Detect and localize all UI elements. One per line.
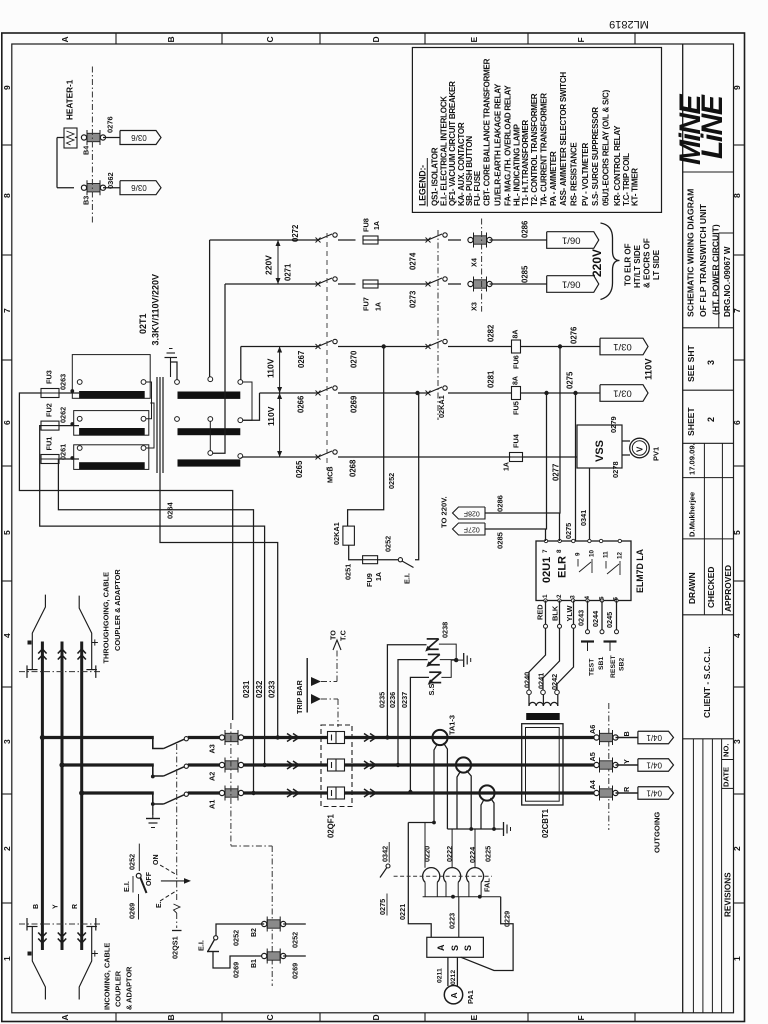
svg-text:1A: 1A bbox=[504, 462, 511, 471]
svg-text:Y: Y bbox=[53, 904, 60, 909]
svg-text:0243: 0243 bbox=[577, 610, 586, 626]
svg-text:FU7: FU7 bbox=[362, 297, 371, 311]
svg-text:02KA1: 02KA1 bbox=[332, 522, 341, 545]
svg-text:0252: 0252 bbox=[128, 854, 137, 870]
svg-text:A2: A2 bbox=[208, 772, 217, 781]
svg-text:0273: 0273 bbox=[409, 290, 418, 308]
svg-text:DRAWN: DRAWN bbox=[687, 572, 697, 604]
svg-text:Y: Y bbox=[622, 759, 631, 764]
svg-text:0277: 0277 bbox=[552, 464, 561, 481]
svg-text:ELM7D LA: ELM7D LA bbox=[635, 548, 645, 593]
svg-text:0252: 0252 bbox=[384, 536, 393, 552]
svg-text:0282: 0282 bbox=[487, 324, 496, 342]
svg-text:0276: 0276 bbox=[106, 116, 115, 133]
svg-text:CBT- CORE BALLANCE TRANSFORMER: CBT- CORE BALLANCE TRANSFORMER bbox=[482, 58, 491, 206]
svg-text:R: R bbox=[72, 904, 79, 909]
svg-text:FU3: FU3 bbox=[45, 370, 54, 384]
svg-text:0245: 0245 bbox=[605, 612, 614, 628]
svg-text:FAL: FAL bbox=[483, 878, 492, 892]
svg-text:5: 5 bbox=[599, 596, 606, 600]
svg-text:0270: 0270 bbox=[350, 350, 359, 368]
svg-text:LT SIDE: LT SIDE bbox=[652, 249, 661, 280]
svg-text:CHECKED: CHECKED bbox=[706, 567, 716, 608]
svg-text:A5: A5 bbox=[588, 752, 597, 761]
svg-text:TA1-3: TA1-3 bbox=[448, 715, 457, 735]
svg-text:S.S.: S.S. bbox=[427, 682, 436, 696]
svg-text:0224: 0224 bbox=[468, 846, 477, 863]
svg-text:02U1: 02U1 bbox=[541, 557, 553, 583]
svg-text:0222: 0222 bbox=[445, 846, 454, 862]
svg-text:0221: 0221 bbox=[398, 904, 407, 920]
svg-text:PV1: PV1 bbox=[652, 447, 661, 461]
svg-text:0264: 0264 bbox=[166, 501, 175, 519]
svg-text:HEATER-1: HEATER-1 bbox=[66, 79, 75, 120]
svg-text:0233: 0233 bbox=[268, 680, 277, 698]
svg-text:110V: 110V bbox=[266, 358, 276, 378]
svg-text:3: 3 bbox=[2, 739, 12, 744]
svg-text:COUPLER: COUPLER bbox=[114, 970, 123, 1007]
svg-text:02CBT1: 02CBT1 bbox=[541, 808, 550, 838]
svg-text:TEST: TEST bbox=[589, 658, 596, 676]
svg-text:0265: 0265 bbox=[295, 460, 304, 478]
svg-text:OF FLP TRANSWITCH UNIT: OF FLP TRANSWITCH UNIT bbox=[698, 203, 708, 317]
svg-text:APPROVED: APPROVED bbox=[723, 565, 733, 612]
svg-text:03/6: 03/6 bbox=[131, 183, 147, 192]
svg-text:0211: 0211 bbox=[437, 968, 444, 983]
svg-text:SHEET: SHEET bbox=[686, 407, 696, 436]
svg-text:2: 2 bbox=[556, 594, 563, 598]
svg-text:FU8: FU8 bbox=[362, 218, 371, 232]
svg-text:LiNE: LiNE bbox=[696, 94, 729, 159]
svg-text:SEE SHT: SEE SHT bbox=[686, 344, 696, 382]
svg-text:RESET: RESET bbox=[610, 654, 617, 678]
svg-text:0274: 0274 bbox=[409, 252, 418, 270]
svg-text:110V: 110V bbox=[644, 358, 655, 380]
svg-text:110V: 110V bbox=[266, 406, 276, 426]
svg-text:U1/ELR-EARTH LEAKAGE RELAY: U1/ELR-EARTH LEAKAGE RELAY bbox=[493, 83, 502, 206]
svg-text:5: 5 bbox=[732, 530, 742, 535]
svg-text:RS- RESISTANCE: RS- RESISTANCE bbox=[569, 142, 578, 206]
svg-text:B: B bbox=[622, 731, 631, 736]
svg-text:0261: 0261 bbox=[59, 444, 68, 460]
svg-text:X3: X3 bbox=[470, 302, 479, 311]
svg-text:QS1- ISOLATOR: QS1- ISOLATOR bbox=[431, 147, 440, 206]
svg-text:D: D bbox=[371, 36, 381, 42]
svg-text:B4: B4 bbox=[82, 146, 91, 155]
svg-text:INCOMING, CABLE: INCOMING, CABLE bbox=[103, 943, 112, 1010]
svg-text:03/1: 03/1 bbox=[613, 341, 632, 352]
svg-text:B: B bbox=[33, 904, 40, 909]
svg-text:FU5: FU5 bbox=[512, 401, 521, 415]
svg-text:T1- H.T.TRANSFORMER: T1- H.T.TRANSFORMER bbox=[521, 120, 530, 206]
svg-text:A6: A6 bbox=[588, 725, 597, 734]
svg-text:1A: 1A bbox=[374, 221, 381, 230]
svg-text:VSS: VSS bbox=[594, 440, 606, 462]
svg-text:E.I.: E.I. bbox=[403, 573, 412, 584]
svg-text:7: 7 bbox=[732, 308, 742, 313]
svg-text:02QF1: 02QF1 bbox=[327, 814, 336, 838]
svg-text:0268: 0268 bbox=[349, 459, 358, 477]
svg-text:3.3KV/110V/220V: 3.3KV/110V/220V bbox=[151, 274, 161, 346]
svg-text:11: 11 bbox=[603, 551, 610, 558]
svg-text:T.C: T.C bbox=[339, 630, 348, 641]
svg-text:PV - VOLTMETER: PV - VOLTMETER bbox=[581, 143, 590, 206]
svg-text:3: 3 bbox=[570, 595, 577, 599]
svg-text:6: 6 bbox=[2, 420, 12, 425]
svg-text:0252: 0252 bbox=[232, 930, 241, 946]
svg-text:8: 8 bbox=[2, 193, 12, 198]
svg-text:ON: ON bbox=[153, 855, 160, 866]
svg-text:10: 10 bbox=[589, 549, 596, 557]
svg-text:A: A bbox=[449, 992, 459, 998]
svg-text:SCHEMATIC WIRING DIAGRAM: SCHEMATIC WIRING DIAGRAM bbox=[686, 189, 696, 317]
svg-text:PA - AMMETER: PA - AMMETER bbox=[549, 151, 558, 206]
svg-text:9: 9 bbox=[2, 85, 12, 90]
svg-text:0267: 0267 bbox=[297, 351, 306, 368]
svg-text:04/1: 04/1 bbox=[646, 733, 662, 742]
svg-text:FU2: FU2 bbox=[45, 403, 54, 417]
svg-text:027F: 027F bbox=[464, 526, 480, 533]
svg-text:0232: 0232 bbox=[255, 680, 264, 698]
svg-text:220V: 220V bbox=[590, 249, 604, 277]
svg-text:B2: B2 bbox=[251, 928, 258, 937]
svg-text:0242: 0242 bbox=[550, 674, 559, 690]
svg-text:NO.: NO. bbox=[721, 743, 730, 757]
svg-text:TO: TO bbox=[329, 630, 338, 640]
svg-text:E.: E. bbox=[156, 901, 163, 908]
svg-text:OFF: OFF bbox=[146, 871, 153, 886]
svg-text:TO 220V.: TO 220V. bbox=[440, 496, 449, 528]
svg-text:6: 6 bbox=[613, 597, 620, 601]
svg-text:0279: 0279 bbox=[609, 416, 618, 433]
svg-text:C: C bbox=[265, 36, 275, 42]
svg-text:LEGEND:-: LEGEND:- bbox=[417, 165, 427, 206]
svg-text:0341: 0341 bbox=[579, 510, 588, 526]
svg-text:2: 2 bbox=[732, 846, 742, 851]
svg-text:03/6: 03/6 bbox=[131, 133, 147, 142]
svg-text:HL- INDICATING LAMP: HL- INDICATING LAMP bbox=[512, 123, 521, 206]
svg-text:& ADAPTOR: & ADAPTOR bbox=[125, 966, 134, 1010]
svg-text:QF1- VACUUM CIRCUIT BREAKER: QF1- VACUUM CIRCUIT BREAKER bbox=[448, 81, 457, 206]
svg-text:RED: RED bbox=[536, 604, 545, 620]
svg-text:FU- FUSE: FU- FUSE bbox=[473, 170, 482, 206]
svg-text:0238: 0238 bbox=[441, 622, 450, 638]
svg-text:0286: 0286 bbox=[521, 220, 530, 238]
svg-text:0275: 0275 bbox=[564, 523, 573, 539]
svg-text:B3: B3 bbox=[82, 196, 91, 205]
svg-text:A1: A1 bbox=[208, 800, 217, 809]
svg-text:0275: 0275 bbox=[566, 371, 575, 389]
svg-text:A: A bbox=[60, 1014, 70, 1020]
svg-text:3: 3 bbox=[706, 360, 716, 365]
svg-text:SB1: SB1 bbox=[598, 657, 605, 670]
svg-text:0220: 0220 bbox=[422, 846, 431, 862]
svg-text:0252: 0252 bbox=[291, 932, 300, 948]
svg-text:8: 8 bbox=[732, 193, 742, 198]
svg-text:0342: 0342 bbox=[381, 846, 390, 862]
svg-text:1A: 1A bbox=[376, 572, 383, 581]
svg-text:E: E bbox=[469, 37, 479, 43]
svg-text:05U1-EOCRS RELAY (O/L & S/C): 05U1-EOCRS RELAY (O/L & S/C) bbox=[602, 89, 611, 206]
svg-text:0235: 0235 bbox=[378, 692, 387, 708]
svg-text:7: 7 bbox=[542, 549, 549, 553]
svg-text:OUTGOING: OUTGOING bbox=[653, 812, 662, 853]
svg-text:0262: 0262 bbox=[59, 407, 68, 423]
svg-text:B1: B1 bbox=[251, 959, 258, 968]
svg-text:220V: 220V bbox=[264, 255, 274, 275]
svg-text:0269: 0269 bbox=[291, 963, 300, 979]
svg-text:E.I.: E.I. bbox=[122, 881, 131, 892]
svg-text:0237: 0237 bbox=[400, 692, 409, 708]
svg-text:02QS1: 02QS1 bbox=[171, 936, 180, 959]
svg-text:E.I.: E.I. bbox=[197, 940, 206, 951]
svg-text:06/1: 06/1 bbox=[562, 279, 581, 290]
svg-text:04/1: 04/1 bbox=[646, 761, 662, 770]
svg-text:ASS- AMMETER SELECTOR SWITCH: ASS- AMMETER SELECTOR SWITCH bbox=[559, 72, 568, 206]
svg-text:FU4: FU4 bbox=[512, 433, 521, 448]
svg-text:COUPLER & ADAPTOR: COUPLER & ADAPTOR bbox=[113, 569, 122, 651]
svg-text:F: F bbox=[576, 37, 586, 42]
svg-text:TRIP BAR: TRIP BAR bbox=[295, 679, 304, 714]
svg-text:0271: 0271 bbox=[284, 263, 293, 281]
svg-text:FU9: FU9 bbox=[365, 573, 374, 587]
svg-text:0269: 0269 bbox=[232, 962, 241, 978]
svg-text:DATE: DATE bbox=[721, 767, 730, 787]
svg-text:0236: 0236 bbox=[388, 692, 397, 708]
svg-text:04/1: 04/1 bbox=[646, 789, 662, 798]
svg-text:A4: A4 bbox=[588, 779, 597, 789]
svg-text:2: 2 bbox=[2, 846, 12, 851]
svg-text:06/1: 06/1 bbox=[562, 235, 581, 246]
svg-text:03/1: 03/1 bbox=[613, 388, 632, 399]
svg-text:TO ELR OF: TO ELR OF bbox=[624, 243, 633, 286]
svg-text:S: S bbox=[463, 945, 473, 951]
svg-text:E: E bbox=[469, 1015, 479, 1021]
svg-text:0231: 0231 bbox=[242, 680, 251, 698]
svg-text:HT/LT SIDE: HT/LT SIDE bbox=[633, 244, 642, 288]
svg-text:0286: 0286 bbox=[496, 495, 505, 512]
svg-text:R: R bbox=[622, 786, 631, 792]
svg-text:FA- MAG./TH. OVERLOAD RELAY: FA- MAG./TH. OVERLOAD RELAY bbox=[504, 85, 513, 206]
svg-text:0251: 0251 bbox=[344, 564, 353, 580]
svg-text:1A: 1A bbox=[376, 302, 383, 311]
svg-text:0285: 0285 bbox=[521, 265, 530, 283]
svg-text:0229: 0229 bbox=[502, 911, 511, 927]
svg-text:E.I.- ELECTRICAL INTERLOCK: E.I.- ELECTRICAL INTERLOCK bbox=[440, 96, 449, 206]
svg-text:B: B bbox=[166, 1014, 176, 1020]
svg-text:4: 4 bbox=[2, 633, 12, 638]
svg-text:A: A bbox=[60, 36, 70, 42]
svg-text:1: 1 bbox=[2, 956, 12, 961]
svg-text:0252: 0252 bbox=[387, 473, 396, 489]
svg-text:0276: 0276 bbox=[570, 326, 579, 344]
svg-text:0212: 0212 bbox=[450, 970, 457, 985]
svg-text:6: 6 bbox=[732, 420, 742, 425]
svg-text:0269: 0269 bbox=[350, 395, 359, 413]
svg-text:4: 4 bbox=[584, 596, 591, 600]
svg-text:T.C- TRIP COIL: T.C- TRIP COIL bbox=[622, 153, 631, 206]
svg-text:FU6: FU6 bbox=[512, 355, 521, 369]
svg-text:0225: 0225 bbox=[484, 846, 493, 862]
svg-text:0263: 0263 bbox=[59, 374, 68, 390]
svg-text:1: 1 bbox=[732, 956, 742, 961]
svg-text:DRG.NO.-09067 W: DRG.NO.-09067 W bbox=[723, 246, 732, 317]
svg-text:0244: 0244 bbox=[591, 610, 600, 627]
svg-text:A3: A3 bbox=[208, 744, 217, 753]
svg-text:ML2819: ML2819 bbox=[609, 18, 649, 30]
svg-text:0266: 0266 bbox=[297, 395, 306, 413]
svg-text:1: 1 bbox=[542, 594, 549, 598]
svg-text:PA1: PA1 bbox=[466, 990, 475, 1004]
svg-text:BLK: BLK bbox=[551, 605, 560, 621]
svg-text:17.09.09.: 17.09.09. bbox=[688, 443, 697, 475]
svg-text:CLIENT - S.C.C.L.: CLIENT - S.C.C.L. bbox=[702, 646, 712, 718]
svg-text:0362: 0362 bbox=[106, 172, 115, 189]
svg-text:9: 9 bbox=[575, 552, 582, 556]
svg-text:02T1: 02T1 bbox=[138, 313, 148, 334]
svg-text:02KA1: 02KA1 bbox=[437, 395, 446, 418]
svg-text:B: B bbox=[166, 36, 176, 42]
svg-text:0223: 0223 bbox=[448, 913, 457, 929]
svg-text:4: 4 bbox=[732, 633, 742, 638]
svg-text:028F: 028F bbox=[464, 510, 480, 517]
svg-text:8A: 8A bbox=[513, 376, 520, 385]
svg-text:YLW: YLW bbox=[565, 605, 574, 621]
svg-text:0281: 0281 bbox=[487, 370, 496, 388]
svg-text:ELR: ELR bbox=[557, 556, 569, 578]
svg-text:D.Mukherjee: D.Mukherjee bbox=[688, 492, 697, 537]
svg-text:C: C bbox=[265, 1014, 275, 1020]
svg-text:FU1: FU1 bbox=[45, 437, 54, 451]
svg-text:T2- CONTROL TRANSFORMER: T2- CONTROL TRANSFORMER bbox=[530, 93, 539, 206]
svg-text:7: 7 bbox=[2, 308, 12, 313]
svg-text:0278: 0278 bbox=[611, 461, 620, 478]
svg-text:S: S bbox=[450, 945, 460, 951]
svg-text:S.S- SURGE SUPPRESSOR: S.S- SURGE SUPPRESSOR bbox=[591, 107, 600, 206]
svg-text:5: 5 bbox=[2, 530, 12, 535]
svg-text:0241: 0241 bbox=[537, 673, 546, 689]
svg-text:V: V bbox=[636, 446, 645, 452]
svg-text:2: 2 bbox=[706, 417, 716, 422]
svg-text:12: 12 bbox=[617, 551, 624, 559]
svg-text:KT- TIMER: KT- TIMER bbox=[631, 168, 640, 206]
svg-text:A: A bbox=[436, 944, 446, 951]
svg-text:SB2: SB2 bbox=[619, 658, 626, 671]
svg-text:0275: 0275 bbox=[378, 899, 387, 915]
svg-text:X4: X4 bbox=[470, 257, 479, 267]
svg-text:& EOCRS OF: & EOCRS OF bbox=[643, 238, 652, 288]
svg-text:8A: 8A bbox=[513, 330, 520, 339]
svg-text:0272: 0272 bbox=[291, 224, 300, 242]
svg-text:TA- CURRENT TRANSFORMER: TA- CURRENT TRANSFORMER bbox=[539, 93, 548, 206]
svg-text:0269: 0269 bbox=[128, 903, 137, 919]
svg-text:0240: 0240 bbox=[523, 672, 532, 688]
svg-text:D: D bbox=[371, 1014, 381, 1020]
svg-text:0285: 0285 bbox=[496, 531, 505, 549]
svg-text:THROUGHGOING, CABLE: THROUGHGOING, CABLE bbox=[102, 572, 111, 664]
svg-text:9: 9 bbox=[732, 85, 742, 90]
svg-text:KR- CONTROL RELAY: KR- CONTROL RELAY bbox=[613, 125, 622, 206]
svg-text:3: 3 bbox=[732, 739, 742, 744]
svg-text:8: 8 bbox=[556, 549, 563, 553]
svg-text:F: F bbox=[576, 1015, 586, 1020]
svg-text:REVISIONS: REVISIONS bbox=[723, 872, 732, 917]
